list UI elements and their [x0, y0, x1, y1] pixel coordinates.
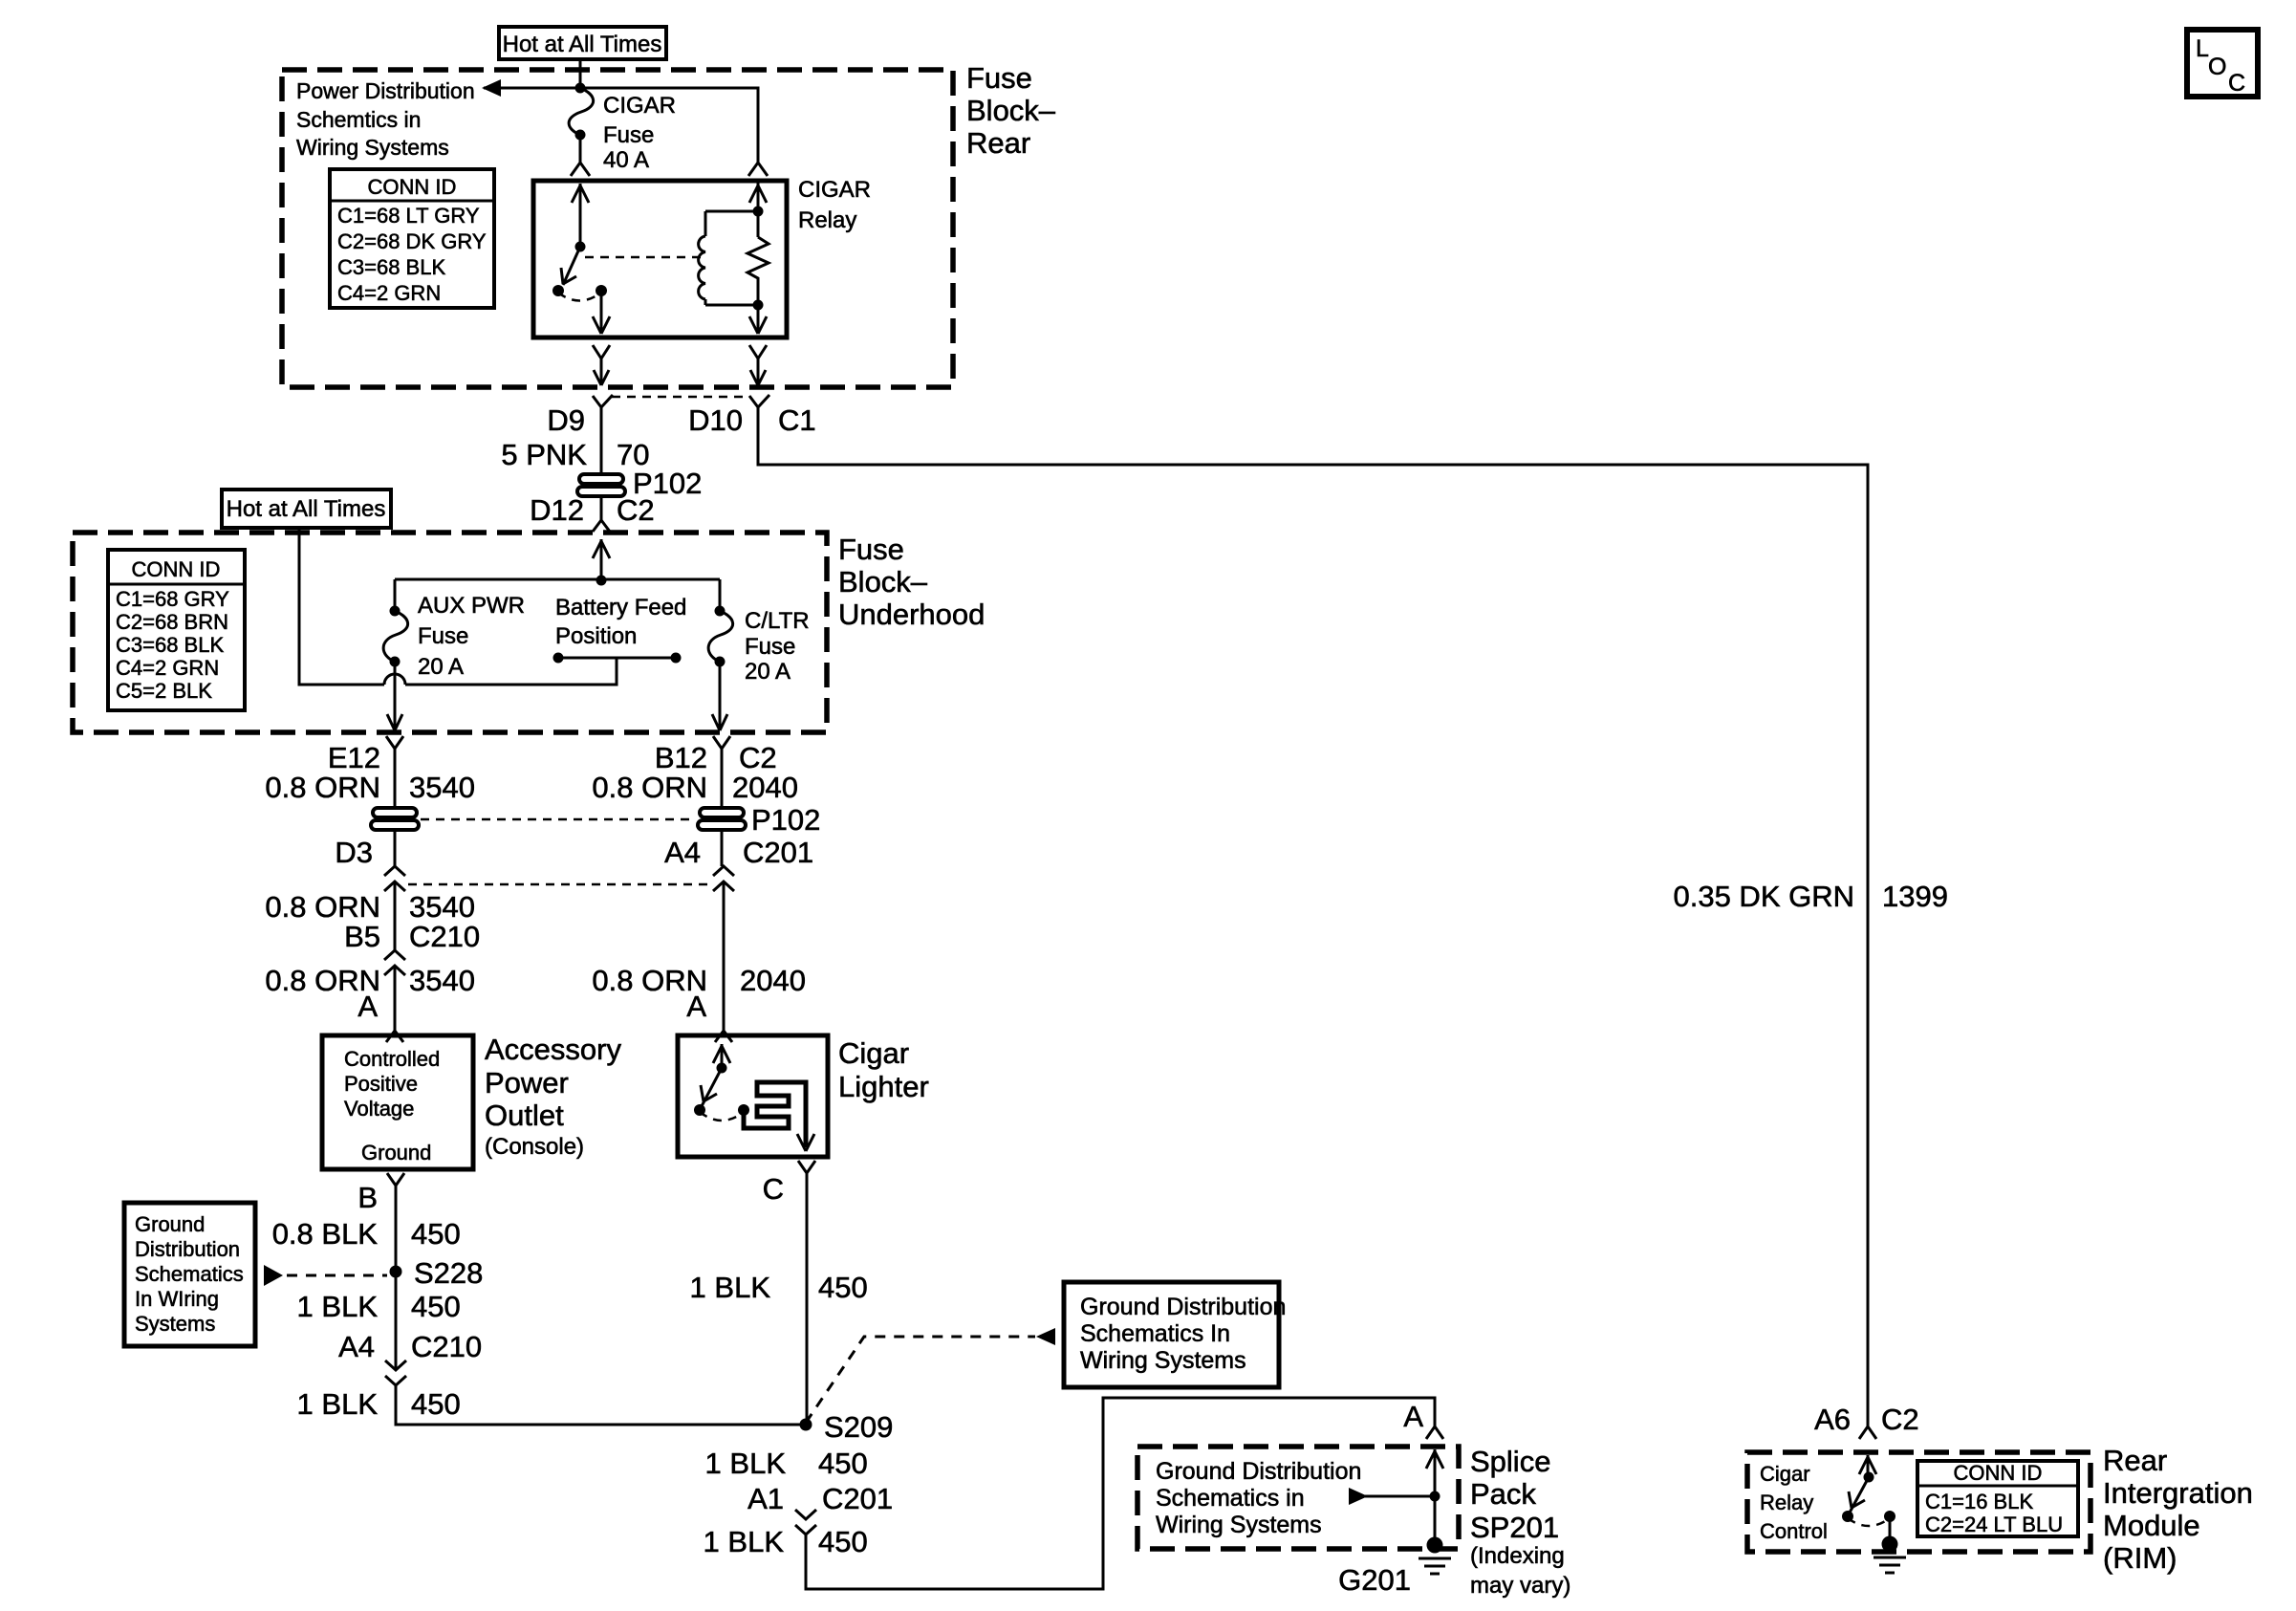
svg-text:C210: C210	[411, 1330, 482, 1363]
svg-text:D12: D12	[530, 493, 584, 527]
svg-text:Pack: Pack	[1470, 1477, 1536, 1511]
svg-text:C2: C2	[739, 741, 777, 774]
svg-text:G201: G201	[1338, 1563, 1411, 1597]
svg-text:CIGAR: CIGAR	[603, 93, 676, 119]
battery feed position jumper	[553, 595, 687, 664]
label 5 PNK 70	[501, 438, 649, 471]
svg-text:C201: C201	[822, 1482, 893, 1515]
svg-text:0.8 ORN: 0.8 ORN	[592, 771, 707, 804]
svg-text:Fuse: Fuse	[966, 61, 1032, 95]
label 1 BLK 450 (below S228)	[297, 1290, 461, 1323]
svg-text:Systems: Systems	[135, 1312, 215, 1336]
label Splice Pack SP201	[1470, 1445, 1570, 1599]
CONN ID table (fuse block rear)	[330, 169, 494, 308]
svg-text:450: 450	[818, 1271, 868, 1304]
svg-text:C3=68 BLK: C3=68 BLK	[116, 633, 224, 657]
svg-text:20 A: 20 A	[418, 654, 464, 680]
relay coil	[699, 207, 764, 311]
svg-text:C/LTR: C/LTR	[745, 608, 810, 634]
label 0.35 DK GRN 1399	[1673, 880, 1947, 913]
svg-text:0.8 ORN: 0.8 ORN	[265, 771, 380, 804]
svg-text:Relay: Relay	[798, 207, 856, 233]
svg-text:D3: D3	[335, 836, 373, 869]
svg-text:Positive: Positive	[344, 1072, 418, 1096]
ground distribution box (center)	[1064, 1282, 1286, 1387]
connector P102 left half	[371, 808, 419, 830]
wire hop to battery feed stub	[405, 658, 617, 685]
fuse CIGAR Fuse 40 A	[569, 88, 676, 176]
dashed link P102	[421, 818, 696, 821]
label Cigar Relay Control	[1760, 1462, 1828, 1543]
dashed reference to ground box (center)	[806, 1328, 1055, 1423]
svg-text:Rear: Rear	[2103, 1444, 2167, 1477]
svg-text:A4: A4	[338, 1330, 375, 1363]
svg-text:Battery Feed: Battery Feed	[555, 595, 686, 620]
wire from junction to relay right pin	[580, 88, 768, 176]
connector chevrons A1/C201 (down)	[795, 1510, 816, 1535]
svg-text:C2: C2	[617, 493, 655, 527]
svg-text:C2=68 DK GRY: C2=68 DK GRY	[337, 229, 487, 253]
svg-text:450: 450	[818, 1447, 868, 1480]
svg-text:Fuse: Fuse	[418, 623, 468, 649]
svg-text:Fuse: Fuse	[838, 533, 904, 566]
label 1 BLK 450 (below S209)	[705, 1447, 868, 1480]
label A1 C201	[747, 1482, 893, 1515]
note Power Distribution Schemtics in Wiring Systems	[296, 78, 475, 160]
svg-text:C1: C1	[778, 403, 816, 437]
svg-text:C4=2 GRN: C4=2 GRN	[116, 656, 219, 680]
svg-text:Power: Power	[485, 1066, 569, 1099]
connector marks below relay left (D9)	[593, 345, 613, 475]
svg-text:Relay: Relay	[1760, 1491, 1813, 1514]
svg-text:A: A	[357, 990, 378, 1023]
svg-text:Distribution: Distribution	[135, 1237, 240, 1261]
svg-text:CONN ID: CONN ID	[1954, 1461, 2043, 1485]
wire from Hot box 2 down and right	[299, 528, 384, 685]
svg-text:Splice: Splice	[1470, 1445, 1550, 1478]
wire from Hot box to junction	[579, 59, 582, 88]
wire S209 to splice pack	[806, 1398, 1435, 1589]
accessory power outlet box	[322, 1035, 473, 1169]
svg-text:C3=68 BLK: C3=68 BLK	[337, 255, 445, 279]
svg-text:Module: Module	[2103, 1509, 2200, 1542]
svg-text:S228: S228	[414, 1256, 483, 1290]
svg-text:Ground Distribution: Ground Distribution	[1156, 1458, 1361, 1485]
svg-text:Schematics In: Schematics In	[1080, 1320, 1230, 1347]
svg-text:C201: C201	[743, 836, 813, 869]
svg-text:Ground: Ground	[135, 1212, 205, 1236]
label B5 C210	[344, 920, 480, 953]
connector fork below outlet (B)	[387, 1173, 404, 1272]
splice pack reference text	[1156, 1458, 1361, 1538]
svg-text:Schematics: Schematics	[135, 1262, 244, 1286]
svg-text:C1=68 GRY: C1=68 GRY	[116, 587, 229, 611]
svg-text:AUX PWR: AUX PWR	[418, 593, 525, 619]
label Accessory Power Outlet (Console)	[485, 1033, 621, 1160]
label 0.8 ORN 2040 (B12)	[592, 771, 798, 804]
cigar lighter box	[678, 1035, 929, 1157]
svg-text:C: C	[763, 1172, 784, 1206]
svg-text:2040: 2040	[732, 771, 798, 804]
svg-text:40 A: 40 A	[603, 147, 649, 173]
svg-text:C: C	[2228, 70, 2245, 97]
svg-text:1399: 1399	[1882, 880, 1948, 913]
Hot at All Times box (underhood)	[222, 490, 391, 528]
cigar lighter switch	[694, 1044, 749, 1121]
svg-text:1 BLK: 1 BLK	[704, 1525, 785, 1558]
wire B5 to outlet	[394, 966, 397, 1023]
svg-text:Hot at All Times: Hot at All Times	[227, 496, 386, 522]
svg-text:C4=2 GRN: C4=2 GRN	[337, 281, 441, 305]
svg-text:C2=24 LT BLU: C2=24 LT BLU	[1925, 1513, 2063, 1536]
wire arrow to power distribution	[482, 79, 580, 97]
svg-text:C1=16 BLK: C1=16 BLK	[1925, 1490, 2033, 1513]
reference arrow from ground box	[264, 1265, 387, 1286]
fuse block underhood dashed box	[73, 533, 827, 732]
relay resistor	[747, 183, 769, 334]
svg-text:1 BLK: 1 BLK	[297, 1387, 379, 1421]
connector fork into outlet	[386, 1023, 403, 1042]
svg-text:3540: 3540	[409, 890, 475, 924]
svg-text:Block–: Block–	[966, 94, 1056, 127]
label B12 C2	[655, 741, 777, 774]
CONN ID table (RIM)	[1917, 1461, 2078, 1536]
fuse C/LTR Fuse 20 A	[708, 606, 809, 731]
svg-text:450: 450	[818, 1525, 868, 1558]
svg-text:Fuse: Fuse	[603, 122, 654, 148]
ground G201	[1338, 1537, 1451, 1598]
label D12 C2	[530, 493, 655, 527]
wire A4 to cigar lighter	[723, 882, 726, 1023]
svg-text:Wiring Systems: Wiring Systems	[1156, 1512, 1322, 1538]
svg-text:Ground Distribution: Ground Distribution	[1080, 1294, 1286, 1320]
label 0.8 BLK 450	[272, 1217, 461, 1251]
node junction at fuse	[575, 83, 586, 94]
svg-text:CIGAR: CIGAR	[798, 177, 871, 203]
splice S228	[390, 1256, 484, 1290]
RIM dashed box	[1747, 1452, 2090, 1552]
svg-text:E12: E12	[328, 741, 380, 774]
svg-text:Fuse: Fuse	[745, 634, 795, 660]
svg-text:C1=68 LT GRY: C1=68 LT GRY	[337, 204, 480, 228]
svg-text:Schematics in: Schematics in	[1156, 1485, 1305, 1512]
svg-text:A: A	[1403, 1400, 1423, 1433]
svg-text:A1: A1	[747, 1482, 784, 1515]
svg-text:1 BLK: 1 BLK	[690, 1271, 771, 1304]
relay switch	[552, 184, 701, 334]
svg-text:5 PNK: 5 PNK	[501, 438, 587, 471]
svg-text:Wiring Systems: Wiring Systems	[296, 135, 449, 160]
svg-text:Power Distribution: Power Distribution	[296, 78, 475, 103]
svg-text:A: A	[686, 990, 706, 1023]
label 1 BLK 450 (cigar wire)	[690, 1271, 868, 1304]
connector mark B12 below box	[713, 736, 730, 809]
svg-text:Wiring Systems: Wiring Systems	[1080, 1347, 1246, 1374]
svg-text:C5=2 BLK: C5=2 BLK	[116, 679, 212, 703]
svg-text:Cigar: Cigar	[838, 1036, 909, 1070]
svg-text:Underhood: Underhood	[838, 598, 985, 631]
connector P102 right half	[698, 803, 820, 837]
node junction main feed	[596, 576, 607, 586]
svg-text:Accessory: Accessory	[485, 1033, 621, 1066]
wire D3 to B5	[394, 882, 397, 950]
svg-text:O: O	[2208, 54, 2226, 80]
label Fuse Block-Underhood	[838, 533, 985, 631]
svg-text:450: 450	[411, 1217, 461, 1251]
relay CIGAR Relay box	[533, 177, 871, 337]
svg-text:In WIring: In WIring	[135, 1287, 219, 1311]
svg-text:Rear: Rear	[966, 126, 1030, 160]
svg-text:0.8 ORN: 0.8 ORN	[265, 890, 380, 924]
connector fork into cigar lighter	[715, 1023, 732, 1042]
connector chevrons B5/C210	[384, 950, 405, 975]
label A6 C2 (RIM)	[1814, 1403, 1919, 1436]
svg-text:D9: D9	[547, 403, 585, 437]
wire D12 into underhood box	[593, 495, 610, 580]
svg-text:A6: A6	[1814, 1403, 1851, 1436]
svg-text:Control: Control	[1760, 1519, 1828, 1543]
svg-text:(RIM): (RIM)	[2103, 1541, 2177, 1575]
connector P102 (main)	[577, 467, 702, 500]
connector fork into splice pack	[1426, 1426, 1443, 1439]
svg-text:0.8 BLK: 0.8 BLK	[272, 1217, 379, 1251]
svg-text:L: L	[2196, 35, 2209, 62]
connector mark E12 below box	[386, 736, 403, 809]
label Fuse Block-Rear	[966, 61, 1056, 160]
label 0.8 ORN 3540 (E12)	[265, 771, 475, 804]
wire C1 to RIM	[758, 407, 1868, 1426]
wire to S209	[396, 1385, 806, 1425]
wire fuse top bus	[395, 579, 720, 611]
label 1 BLK 450 (lower left)	[297, 1387, 461, 1421]
svg-text:C2=68 BRN: C2=68 BRN	[116, 610, 228, 634]
fuse block rear dashed box	[282, 70, 953, 387]
connector fork below cigar lighter (C)	[798, 1161, 815, 1425]
svg-text:Outlet: Outlet	[485, 1099, 564, 1132]
svg-text:SP201: SP201	[1470, 1511, 1559, 1544]
svg-text:B5: B5	[344, 920, 380, 953]
RIM internal ground	[1874, 1536, 1906, 1574]
splice pack dashed box	[1137, 1447, 1459, 1549]
fuse AUX PWR Fuse 20 A	[383, 593, 525, 730]
Hot at All Times box (top)	[499, 27, 666, 59]
svg-text:450: 450	[411, 1387, 461, 1421]
svg-text:C2: C2	[1881, 1403, 1919, 1436]
connector chevrons A4/C210 (down)	[385, 1272, 406, 1385]
svg-text:C210: C210	[409, 920, 480, 953]
svg-text:S209: S209	[824, 1410, 893, 1444]
LOC logo box	[2187, 30, 2258, 97]
svg-text:Block–: Block–	[838, 565, 928, 599]
CONN ID table (underhood)	[108, 550, 245, 710]
svg-text:Voltage: Voltage	[344, 1097, 414, 1121]
svg-text:may vary): may vary)	[1470, 1573, 1570, 1599]
svg-text:Cigar: Cigar	[1760, 1462, 1810, 1486]
svg-text:Ground: Ground	[361, 1141, 431, 1165]
svg-text:3540: 3540	[409, 964, 475, 997]
svg-text:D10: D10	[688, 403, 743, 437]
label 0.8 ORN 3540 (lower)	[265, 964, 475, 997]
svg-text:Intergration: Intergration	[2103, 1476, 2253, 1510]
svg-text:2040: 2040	[740, 964, 806, 997]
svg-text:(Indexing: (Indexing	[1470, 1543, 1565, 1569]
label A4 C201	[664, 836, 813, 869]
wire hop over aux fuse wire	[384, 674, 405, 685]
splice S209	[800, 1410, 894, 1444]
RIM cigar relay control switch	[1842, 1455, 1895, 1542]
dashed link D3-A4	[408, 883, 712, 886]
svg-text:1 BLK: 1 BLK	[297, 1290, 379, 1323]
svg-text:Hot at All Times: Hot at All Times	[503, 32, 662, 57]
ground distribution box (left)	[124, 1203, 255, 1346]
svg-text:20 A: 20 A	[745, 659, 791, 685]
label 0.8 ORN 2040 (lower)	[592, 964, 806, 997]
svg-text:1 BLK: 1 BLK	[705, 1447, 787, 1480]
wire below P102 right	[721, 828, 724, 866]
label 1 BLK 450 (bottom)	[704, 1525, 868, 1558]
svg-text:B12: B12	[655, 741, 707, 774]
svg-text:0.35 DK GRN: 0.35 DK GRN	[1673, 880, 1854, 913]
label 0.8 ORN 3540 (mid)	[265, 890, 475, 924]
dashed connector link D9-D10	[612, 396, 747, 399]
svg-text:P102: P102	[751, 803, 820, 837]
connector fork into RIM	[1859, 1426, 1876, 1439]
svg-text:Controlled: Controlled	[344, 1047, 440, 1071]
cigar lighter heating element	[744, 1082, 814, 1151]
label A4 C210	[338, 1330, 482, 1363]
svg-text:CONN ID: CONN ID	[132, 557, 221, 581]
svg-text:Position: Position	[555, 623, 637, 649]
svg-text:Lighter: Lighter	[838, 1070, 929, 1103]
svg-text:Schemtics in: Schemtics in	[296, 107, 421, 132]
splice pack internal pin	[1349, 1449, 1443, 1543]
wire below P102 left	[394, 828, 397, 866]
connector marks below relay right (D10 C1)	[749, 345, 769, 407]
connector chevrons D3/A4	[384, 866, 734, 891]
svg-text:CONN ID: CONN ID	[368, 175, 457, 199]
svg-text:3540: 3540	[409, 771, 475, 804]
svg-text:(Console): (Console)	[485, 1134, 584, 1160]
svg-text:A4: A4	[664, 836, 701, 869]
label Rear Intergration Module (RIM)	[2103, 1444, 2253, 1575]
svg-text:450: 450	[411, 1290, 461, 1323]
svg-text:B: B	[357, 1181, 378, 1214]
